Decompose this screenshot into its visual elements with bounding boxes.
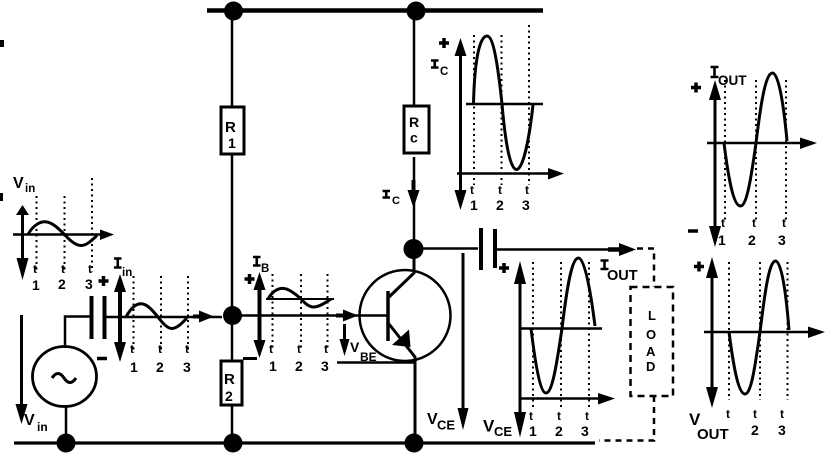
svg-text:t: t	[726, 407, 730, 421]
svg-text:1: 1	[470, 197, 478, 213]
svg-text:t: t	[782, 216, 786, 230]
svg-text:2: 2	[156, 359, 164, 375]
dotted timeline t2 VCE	[560, 262, 562, 408]
svg-text:3: 3	[778, 422, 786, 438]
svg-text:t: t	[185, 342, 189, 356]
plot Vin (top-left)	[0, 40, 114, 293]
plus sign Iout	[691, 86, 701, 90]
dotted timeline t3 VCE	[588, 262, 590, 408]
resistor R2	[221, 361, 242, 405]
svg-text:D: D	[646, 359, 655, 374]
ground bottom rail	[14, 441, 595, 444]
svg-text:2: 2	[58, 276, 66, 292]
capacitor C2 output coupling left plate	[479, 228, 483, 270]
svg-text:O: O	[646, 327, 656, 342]
plot Iout (top-right)	[688, 67, 817, 248]
svg-text:1: 1	[718, 232, 726, 248]
svg-text:t: t	[525, 183, 529, 197]
AC source minus sign	[97, 357, 107, 361]
svg-text:t: t	[585, 409, 589, 423]
arrow Vin measure left	[20, 315, 23, 406]
arrow VBE down	[343, 324, 346, 341]
svg-text:B: B	[261, 263, 269, 275]
plus sign VCE	[499, 266, 509, 270]
svg-text:A: A	[646, 344, 656, 359]
dotted timeline t3 Iout	[785, 80, 787, 222]
plus sign IC	[439, 41, 449, 45]
edge tick clipped plus	[0, 193, 3, 201]
dotted timeline t1 IB	[272, 274, 274, 351]
svg-text:t: t	[753, 407, 757, 421]
plus sign IB	[245, 277, 255, 281]
axis IC vertical double arrow	[459, 50, 462, 194]
transistor Q1 collector lead	[389, 258, 414, 297]
svg-text:c: c	[410, 130, 418, 146]
axis Vin horizontal	[13, 233, 104, 236]
wire C1 to base node	[106, 316, 222, 319]
svg-text:3: 3	[321, 358, 329, 374]
dotted timeline t1 IC	[473, 35, 475, 185]
svg-text:t: t	[33, 262, 37, 276]
plus sign Vout	[694, 265, 704, 269]
dotted timeline t3 Iin	[187, 276, 189, 352]
junction top-left (R1 to rail)	[224, 2, 243, 21]
plus sign Iin	[99, 279, 109, 283]
svg-text:3: 3	[85, 276, 93, 292]
svg-text:C: C	[440, 66, 448, 78]
node base junction	[223, 306, 242, 325]
dotted timeline t2 Iout	[755, 80, 757, 222]
svg-text:t: t	[130, 342, 134, 356]
axis Vout horizontal	[704, 331, 808, 334]
svg-text:V: V	[24, 412, 35, 429]
wire C2 to load with Iout arrow	[497, 248, 622, 251]
resistor R1	[221, 107, 244, 154]
wire rail to Rc	[413, 13, 416, 105]
plot Vout (bottom-right)	[689, 257, 825, 443]
dotted timeline t2 Vin	[64, 196, 66, 272]
dotted timeline t3 Vout	[787, 262, 789, 400]
label IB	[253, 257, 261, 266]
svg-text:OUT: OUT	[697, 426, 729, 443]
arrow IC down on collector wire	[412, 180, 416, 192]
plot Iin (input current)	[99, 259, 192, 376]
wire Rc to collector node	[413, 157, 416, 243]
dotted timeline t1 Iin	[133, 276, 135, 352]
transistor Q1 base bar	[386, 291, 390, 341]
axis Iout horizontal	[707, 142, 800, 145]
sine IB	[268, 288, 331, 307]
svg-text:V: V	[350, 339, 360, 355]
zero line VCE	[520, 327, 602, 330]
svg-text:L: L	[648, 308, 656, 323]
svg-text:1: 1	[529, 423, 537, 439]
plot IC (collector current)	[431, 25, 564, 213]
capacitor C2 output coupling right plate	[493, 229, 497, 268]
svg-text:1: 1	[228, 135, 236, 151]
junction bottom R2	[224, 434, 243, 453]
transistor Q1 emitter lead	[389, 324, 415, 438]
svg-text:1: 1	[269, 358, 277, 374]
svg-text:2: 2	[496, 197, 504, 213]
zero line IC	[466, 103, 543, 106]
svg-text:1: 1	[32, 277, 40, 293]
dotted timeline t3 IB	[327, 274, 329, 351]
arrow Iin double vertical	[118, 284, 122, 350]
junction bottom source	[57, 434, 76, 453]
axis IC horizontal	[457, 172, 552, 175]
dotted timeline t1 Vout	[728, 262, 730, 400]
svg-text:CE: CE	[437, 418, 455, 433]
arrowhead on input wire	[199, 311, 214, 323]
arrowhead Iout wire	[608, 247, 622, 252]
svg-text:t: t	[324, 342, 328, 356]
svg-text:t: t	[721, 216, 725, 230]
svg-text:2: 2	[295, 358, 303, 374]
axis VCE horizontal	[520, 397, 598, 400]
MAIN-CIRCUIT	[14, 2, 673, 453]
sine Iout	[724, 73, 787, 206]
svg-text:R: R	[225, 119, 236, 136]
axis VCE vertical double arrow	[519, 278, 522, 414]
dotted timeline t2 Vout	[759, 262, 761, 400]
wire source top to input cap	[65, 317, 90, 349]
dotted timeline t3 IC	[528, 25, 530, 185]
svg-text:R: R	[224, 371, 235, 388]
svg-text:t: t	[529, 409, 533, 423]
wire R1 to base node	[231, 154, 234, 310]
svg-text:CE: CE	[494, 424, 512, 439]
label Iout plot	[711, 67, 719, 77]
wire R2 to ground rail	[231, 405, 234, 441]
label IC on collector wire	[383, 191, 391, 198]
svg-text:3: 3	[183, 359, 191, 375]
svg-text:C: C	[392, 195, 400, 207]
dotted timeline t1 Vin	[36, 196, 38, 272]
dashed wire load bottom to ground	[599, 396, 654, 441]
svg-text:in: in	[122, 267, 132, 279]
dotted timeline t1 VCE	[532, 262, 534, 408]
svg-text:V: V	[13, 175, 24, 192]
dotted timeline t2 Iin	[160, 276, 162, 352]
svg-text:t: t	[297, 342, 301, 356]
wire VBE emitter reference line	[337, 361, 414, 364]
svg-text:1: 1	[130, 359, 138, 375]
junction bottom emitter	[405, 434, 424, 453]
capacitor C1 input coupling left plate	[90, 296, 94, 339]
resistor Rc	[404, 106, 429, 153]
wire collector node to output cap	[421, 247, 478, 250]
label IC plot	[431, 61, 439, 68]
svg-text:t: t	[88, 262, 92, 276]
arrow IB double vertical	[258, 283, 262, 344]
svg-text:t: t	[498, 183, 502, 197]
svg-text:t: t	[557, 409, 561, 423]
svg-text:t: t	[158, 342, 162, 356]
svg-text:3: 3	[581, 423, 589, 439]
svg-text:3: 3	[522, 197, 530, 213]
node collector junction	[404, 239, 424, 259]
svg-text:t: t	[61, 262, 65, 276]
wire base node to transistor base	[238, 314, 388, 317]
svg-text:t: t	[470, 183, 474, 197]
minus sign Iout	[688, 229, 698, 233]
arrow VCE measure long	[462, 253, 465, 410]
arrowhead on base wire	[343, 310, 358, 322]
wire source bottom to ground rail	[65, 405, 68, 441]
svg-text:t: t	[269, 342, 273, 356]
capacitor C1 input coupling right plate	[103, 296, 107, 339]
dotted timeline t2 IC	[501, 35, 503, 185]
svg-text:2: 2	[751, 422, 759, 438]
sine IC	[474, 36, 534, 170]
zero line IB	[266, 298, 334, 300]
AC source V1 circle	[33, 347, 97, 407]
load box dashed	[631, 287, 674, 396]
minus sign IB	[243, 357, 257, 360]
axis Vout vertical double arrow	[711, 272, 714, 390]
svg-text:R: R	[409, 114, 419, 130]
sine Vin	[28, 222, 97, 246]
wire base node to R2	[231, 322, 234, 362]
axis Iout vertical double arrow	[714, 95, 717, 228]
svg-text:2: 2	[748, 232, 756, 248]
label Iin	[114, 259, 122, 268]
svg-text:in: in	[37, 420, 48, 434]
svg-text:2: 2	[225, 388, 233, 404]
dashed wire to load top	[637, 249, 654, 288]
sine VCE	[531, 258, 595, 393]
svg-text:OUT: OUT	[607, 268, 638, 284]
Vcc top supply rail	[207, 8, 543, 13]
AC source sine symbol	[52, 374, 76, 383]
svg-text:in: in	[25, 183, 35, 195]
transistor Q1 emitter arrowhead	[392, 330, 411, 348]
svg-text:3: 3	[778, 232, 786, 248]
dotted timeline t3 Vin	[91, 178, 93, 272]
svg-text:t: t	[780, 407, 784, 421]
wire rail to R1	[231, 13, 234, 107]
dotted timeline t2 IB	[300, 274, 302, 351]
label Iout on wire	[601, 261, 609, 270]
svg-text:2: 2	[555, 423, 563, 439]
junction top-right (Rc to rail)	[407, 2, 426, 21]
dotted timeline t1 Iout	[724, 80, 726, 222]
sine Vout	[729, 261, 789, 394]
axis Vin vertical double arrow	[21, 211, 24, 262]
plot VCE (collector-emitter voltage)	[483, 258, 615, 439]
transistor Q1 body circle	[360, 270, 451, 361]
plot IB (base current)	[243, 257, 334, 374]
svg-text:t: t	[752, 216, 756, 230]
sine Iin on wire	[126, 304, 187, 329]
svg-text:OUT: OUT	[718, 73, 747, 88]
